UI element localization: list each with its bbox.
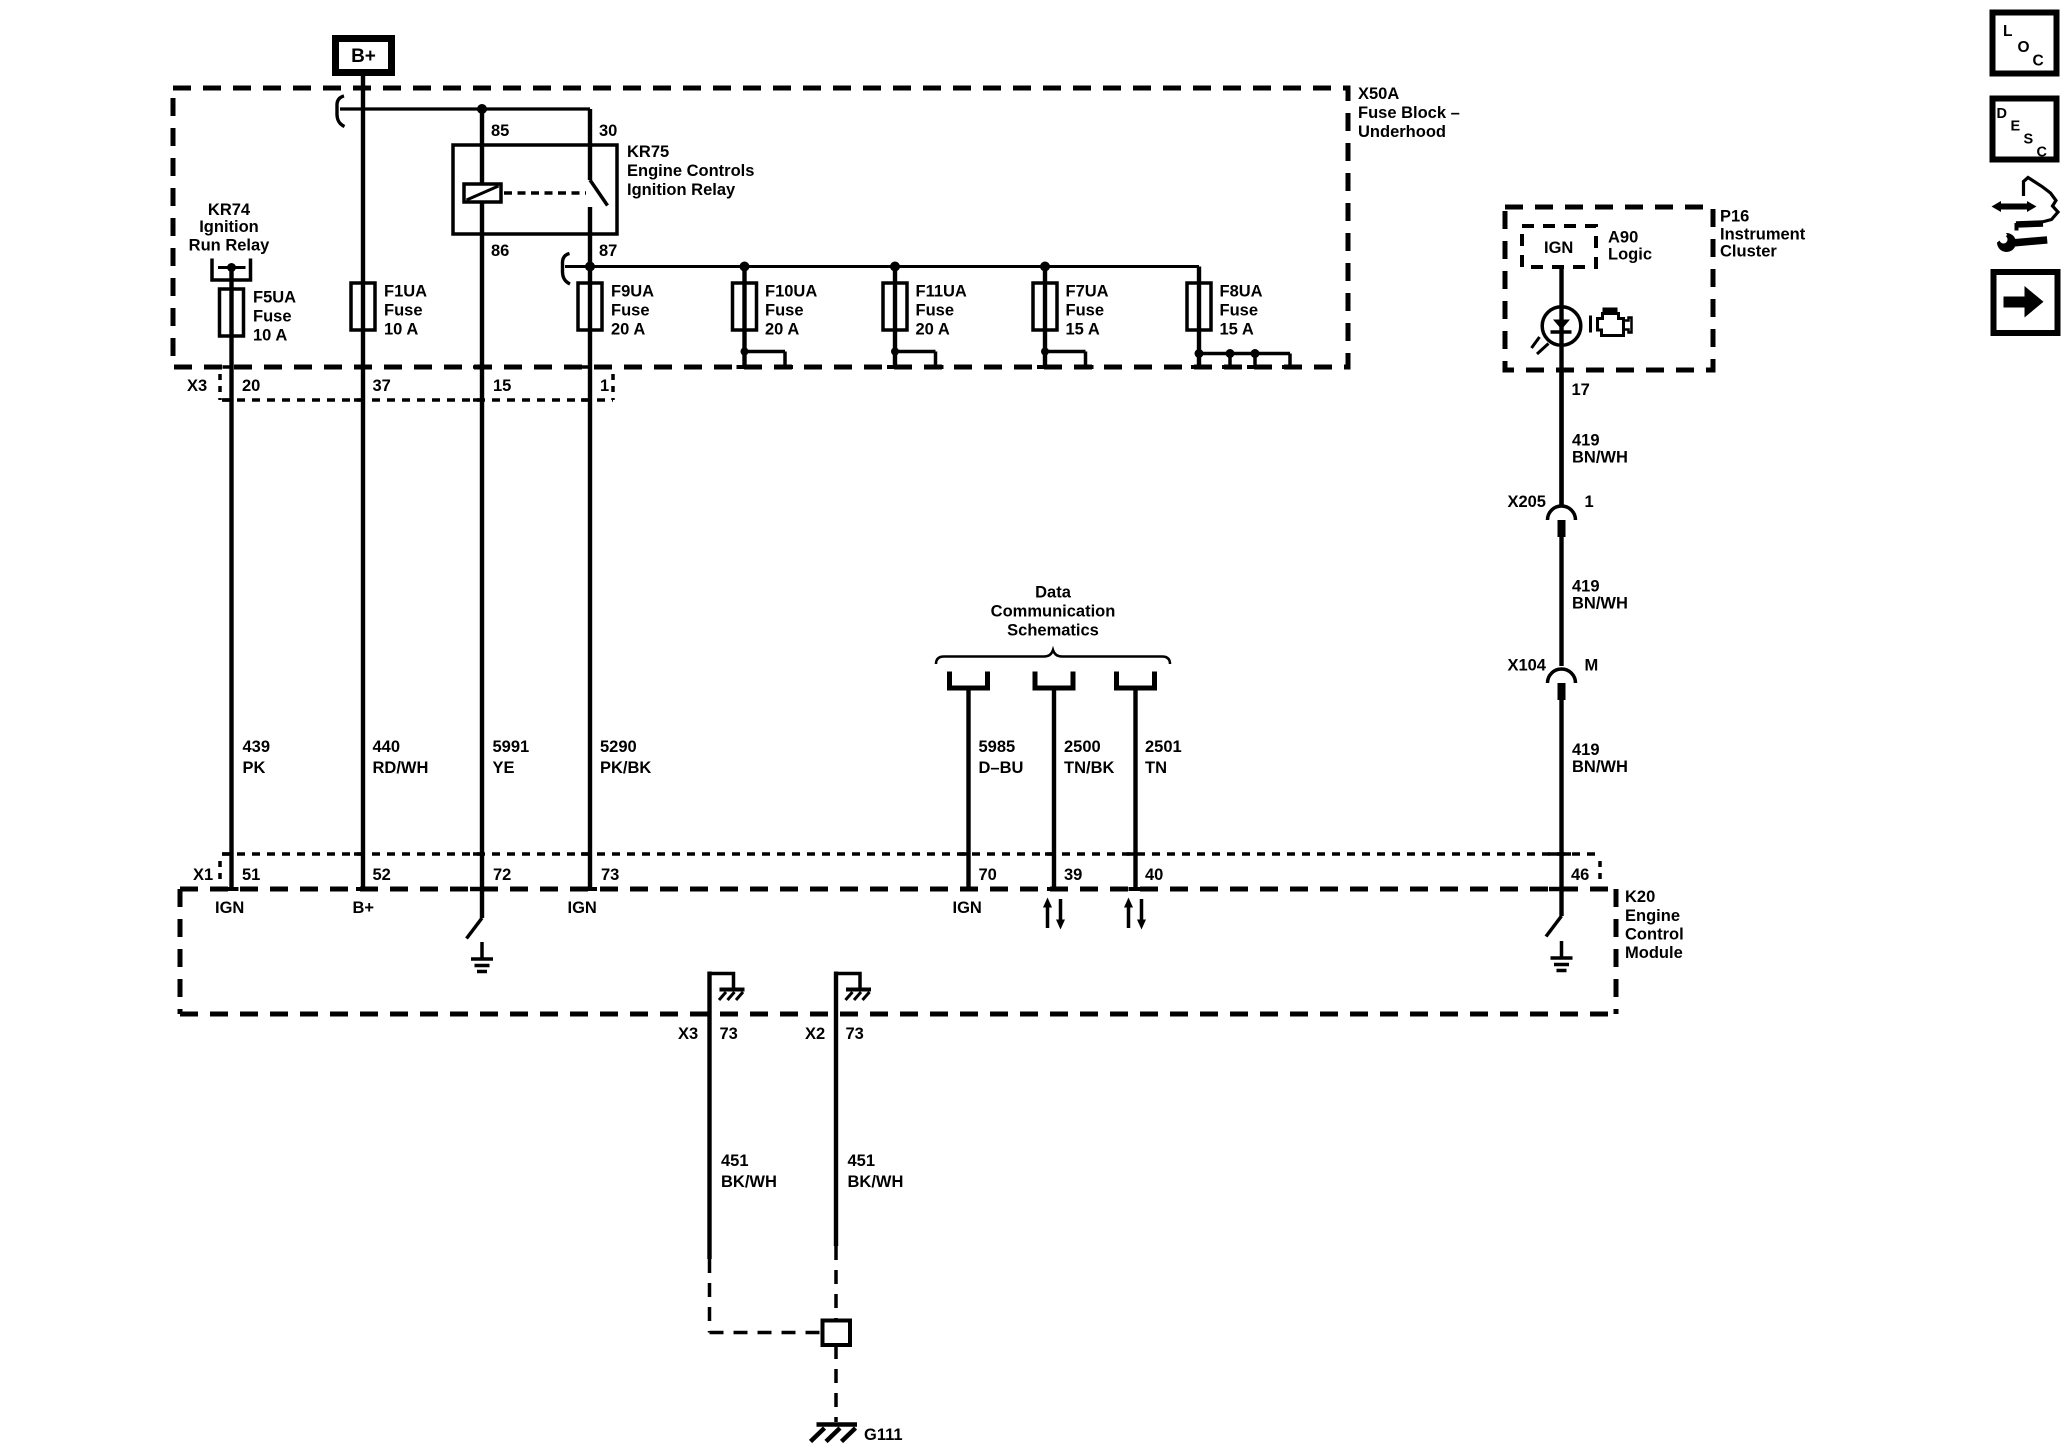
relay KR74 Ignition Run Relay terminal <box>189 201 271 280</box>
inline connector X104 pin M <box>1507 657 1598 701</box>
bidirectional data arrows at pin 39 <box>1043 898 1065 930</box>
svg-text:Fuse: Fuse <box>253 308 292 326</box>
svg-text:X2: X2 <box>805 1025 825 1043</box>
svg-text:Module: Module <box>1625 944 1683 962</box>
relay KR75 switch blade <box>590 180 608 206</box>
off-page connector for wire 2501 <box>1117 672 1155 689</box>
svg-text:IGN: IGN <box>568 899 597 917</box>
svg-text:O: O <box>2018 39 2030 56</box>
relay KR75 Engine Controls Ignition Relay <box>453 143 754 234</box>
svg-text:BN/WH: BN/WH <box>1572 595 1628 613</box>
svg-text:Fuse: Fuse <box>916 302 955 320</box>
svg-text:Communication: Communication <box>991 603 1116 621</box>
svg-text:51: 51 <box>242 866 260 884</box>
wire 419 BN/WH segment 1 <box>1562 370 1628 507</box>
svg-text:TN/BK: TN/BK <box>1064 759 1114 777</box>
diagnostic hand/arrow icon <box>1992 178 2059 231</box>
svg-text:20 A: 20 A <box>611 321 645 339</box>
svg-text:IGN: IGN <box>1544 239 1573 257</box>
node junction at relay coil feed <box>477 104 487 114</box>
off-page connector for wire 5985 <box>950 672 988 689</box>
P16 Instrument Cluster box <box>1505 207 1806 370</box>
svg-text:46: 46 <box>1571 866 1589 884</box>
svg-text:A90: A90 <box>1608 229 1638 247</box>
svg-text:TN: TN <box>1145 759 1167 777</box>
wire to ground G111 dashed <box>834 1345 838 1422</box>
wire relay pin 30 <box>588 109 592 180</box>
svg-text:Schematics: Schematics <box>1007 622 1099 640</box>
svg-text:Engine: Engine <box>1625 907 1680 925</box>
internal switch at pin 72 <box>467 889 483 939</box>
svg-text:BK/WH: BK/WH <box>848 1173 904 1191</box>
A90 Logic IGN input box <box>1522 226 1652 267</box>
Data Communication Schematics label <box>991 584 1116 640</box>
svg-text:73: 73 <box>720 1025 738 1043</box>
connector X2 pin 73 labels <box>805 1025 864 1043</box>
fuse F8UA 15A <box>1187 267 1263 368</box>
svg-text:X205: X205 <box>1507 493 1546 511</box>
ground inside ECM at pin 72 <box>471 942 493 972</box>
svg-text:X3: X3 <box>187 377 207 395</box>
svg-text:5991: 5991 <box>493 738 530 756</box>
svg-text:L: L <box>2003 23 2012 40</box>
X50A Fuse Block - Underhood box <box>173 85 1460 367</box>
svg-text:X50A: X50A <box>1358 85 1399 103</box>
svg-text:G111: G111 <box>864 1426 903 1444</box>
inline connector X205 pin 1 <box>1507 493 1593 537</box>
svg-text:86: 86 <box>491 242 509 260</box>
svg-text:451: 451 <box>848 1152 876 1170</box>
connector X3 of fuse block <box>187 374 613 400</box>
svg-text:Control: Control <box>1625 926 1684 944</box>
svg-text:Engine Controls: Engine Controls <box>627 162 754 180</box>
svg-text:Fuse: Fuse <box>765 302 804 320</box>
svg-text:15: 15 <box>493 377 511 395</box>
svg-text:20 A: 20 A <box>916 321 950 339</box>
svg-text:F1UA: F1UA <box>384 283 427 301</box>
wire 451 dashed segment left <box>710 1259 823 1333</box>
svg-text:K20: K20 <box>1625 888 1655 906</box>
svg-text:Data: Data <box>1035 584 1072 602</box>
svg-text:10 A: 10 A <box>253 327 287 345</box>
svg-text:10 A: 10 A <box>384 321 418 339</box>
svg-text:D–BU: D–BU <box>979 759 1024 777</box>
wire relay pin 85 coil feed <box>480 109 484 185</box>
fuse F10UA 20A <box>733 262 818 368</box>
svg-text:X104: X104 <box>1507 657 1546 675</box>
svg-text:Underhood: Underhood <box>1358 123 1446 141</box>
svg-text:Fuse: Fuse <box>1066 302 1105 320</box>
svg-text:Fuse Block –: Fuse Block – <box>1358 104 1460 122</box>
wire 419 BN/WH segment 3 to pin 46 <box>1562 700 1628 889</box>
fuse F7UA 15A <box>1033 262 1109 368</box>
svg-text:Fuse: Fuse <box>611 302 650 320</box>
svg-text:Cluster: Cluster <box>1720 243 1777 261</box>
wire B+ vertical feed to pin 52 <box>361 75 365 889</box>
internal switch at pin 46 <box>1546 889 1562 937</box>
connector ticks X3 <box>223 367 593 400</box>
svg-text:P16: P16 <box>1720 208 1749 226</box>
bidirectional data arrows at pin 40 <box>1124 898 1146 930</box>
svg-text:Run Relay: Run Relay <box>189 237 271 255</box>
svg-text:Ignition: Ignition <box>199 218 259 236</box>
internal chassis ground lead X2 pin 73 <box>836 972 871 1247</box>
wire 451 dashed segment right <box>834 1246 838 1321</box>
svg-text:Ignition Relay: Ignition Relay <box>627 181 736 199</box>
svg-text:Fuse: Fuse <box>1220 302 1259 320</box>
svg-text:IGN: IGN <box>215 899 244 917</box>
LOC icon box <box>1993 13 2057 74</box>
svg-text:73: 73 <box>846 1025 864 1043</box>
wire 2500 TN/BK <box>1054 688 1114 889</box>
svg-text:YE: YE <box>493 759 515 777</box>
svg-text:Fuse: Fuse <box>384 302 423 320</box>
wire 451 BK/WH left label <box>721 1152 777 1191</box>
svg-text:1: 1 <box>600 377 609 395</box>
svg-text:2501: 2501 <box>1145 738 1182 756</box>
node junction pin87/bus <box>585 262 595 272</box>
svg-text:15 A: 15 A <box>1066 321 1100 339</box>
wire IGN to indicator <box>1559 267 1563 507</box>
wire KR74 to fuse F5UA and pin 51 <box>229 268 233 890</box>
svg-text:440: 440 <box>373 738 401 756</box>
fuse F1UA 10A <box>351 283 427 339</box>
svg-text:30: 30 <box>599 122 617 140</box>
wire 2501 TN <box>1136 688 1182 889</box>
relay KR75 coil <box>464 184 501 202</box>
svg-text:M: M <box>1585 657 1599 675</box>
svg-text:73: 73 <box>601 866 619 884</box>
fuse F10UA output tap <box>737 348 794 368</box>
wire relay pin 87 down through fuse F9UA to pin 73 <box>588 207 592 889</box>
svg-text:419: 419 <box>1572 741 1600 759</box>
svg-text:419: 419 <box>1572 432 1600 450</box>
fuse F11UA output tap <box>887 348 944 368</box>
battery positive terminal B+ <box>336 39 392 73</box>
svg-text:X3: X3 <box>678 1025 698 1043</box>
ground inside ECM at pin 46 <box>1551 941 1573 971</box>
fuse F5UA 10A <box>220 289 297 345</box>
svg-text:PK/BK: PK/BK <box>600 759 651 777</box>
brace for data communication schematics <box>936 650 1170 664</box>
svg-text:KR75: KR75 <box>627 143 669 161</box>
internal chassis ground lead X3 pin 73 <box>710 972 745 1260</box>
svg-text:C: C <box>2033 53 2044 70</box>
wire top bus from B+ to relay KR75 pins 85 and 30 <box>340 107 590 110</box>
svg-text:KR74: KR74 <box>208 201 251 219</box>
wire 5991 YE label <box>493 738 530 777</box>
fuse F7UA output tap <box>1037 348 1094 368</box>
svg-text:IGN: IGN <box>953 899 982 917</box>
svg-text:37: 37 <box>373 377 391 395</box>
svg-text:F11UA: F11UA <box>916 283 967 301</box>
svg-text:5985: 5985 <box>979 738 1016 756</box>
engine icon (MIL) <box>1591 308 1632 336</box>
svg-text:B+: B+ <box>351 46 376 67</box>
svg-text:39: 39 <box>1064 866 1082 884</box>
connector ticks X1 <box>223 854 1574 889</box>
svg-text:87: 87 <box>599 242 617 260</box>
svg-text:70: 70 <box>979 866 997 884</box>
svg-text:1: 1 <box>1585 493 1594 511</box>
svg-text:F5UA: F5UA <box>253 289 296 307</box>
svg-text:2500: 2500 <box>1064 738 1101 756</box>
svg-text:E: E <box>2011 119 2021 135</box>
svg-text:C: C <box>2037 145 2048 161</box>
svg-text:17: 17 <box>1572 381 1590 399</box>
svg-text:B+: B+ <box>353 899 375 917</box>
wire 451 BK/WH right label <box>848 1152 904 1191</box>
svg-text:F9UA: F9UA <box>611 283 654 301</box>
svg-text:85: 85 <box>491 122 509 140</box>
svg-text:BN/WH: BN/WH <box>1572 758 1628 776</box>
svg-text:72: 72 <box>493 866 511 884</box>
svg-text:D: D <box>1997 106 2007 122</box>
svg-text:X1: X1 <box>193 866 213 884</box>
svg-text:F7UA: F7UA <box>1066 283 1109 301</box>
wrench icon <box>1991 228 2048 252</box>
wire branch hook at pin 87 bus <box>562 254 570 285</box>
svg-text:S: S <box>2024 132 2034 148</box>
wire fuse feed bus to F10UA F11UA F7UA F8UA <box>565 265 1199 268</box>
wire 5290 PK/BK label <box>600 738 651 777</box>
wire 5985 D-BU <box>969 688 1024 889</box>
wire 419 BN/WH segment 2 <box>1562 537 1628 666</box>
wire branch hook on B+ feed <box>337 96 345 127</box>
svg-text:BK/WH: BK/WH <box>721 1173 777 1191</box>
svg-text:Instrument: Instrument <box>1720 226 1806 244</box>
splice S-junction <box>823 1321 851 1346</box>
svg-text:451: 451 <box>721 1152 749 1170</box>
svg-text:15 A: 15 A <box>1220 321 1254 339</box>
svg-text:20: 20 <box>242 377 260 395</box>
svg-text:40: 40 <box>1145 866 1163 884</box>
connector X3 pin 73 labels <box>678 1025 738 1043</box>
svg-text:419: 419 <box>1572 578 1600 596</box>
fuse F8UA output taps <box>1191 349 1298 367</box>
svg-text:F10UA: F10UA <box>765 283 817 301</box>
K20 Engine Control Module box <box>180 888 1684 1014</box>
svg-text:Logic: Logic <box>1608 246 1652 264</box>
DESC icon box <box>1993 99 2057 161</box>
relay KR75 coil-to-contact dashed link <box>504 191 586 195</box>
off-page connector for wire 2500 <box>1035 672 1073 689</box>
connector X1 of ECM <box>193 854 1600 885</box>
fuse F9UA 20A <box>578 283 654 339</box>
svg-text:F8UA: F8UA <box>1220 283 1263 301</box>
indicator lamp LED <box>1532 307 1581 354</box>
wire 440 RD/WH label <box>373 738 429 777</box>
wire 439 PK label <box>243 738 271 777</box>
svg-text:52: 52 <box>373 866 391 884</box>
fuse F11UA 20A <box>883 262 967 368</box>
svg-text:20 A: 20 A <box>765 321 799 339</box>
ground G111 <box>811 1425 903 1445</box>
svg-text:439: 439 <box>243 738 271 756</box>
forward arrow icon box <box>1994 272 2058 333</box>
svg-text:BN/WH: BN/WH <box>1572 449 1628 467</box>
svg-text:RD/WH: RD/WH <box>373 759 429 777</box>
svg-text:PK: PK <box>243 759 266 777</box>
wire relay pin 86 down to ECM pin 72 <box>480 202 484 889</box>
svg-text:5290: 5290 <box>600 738 637 756</box>
